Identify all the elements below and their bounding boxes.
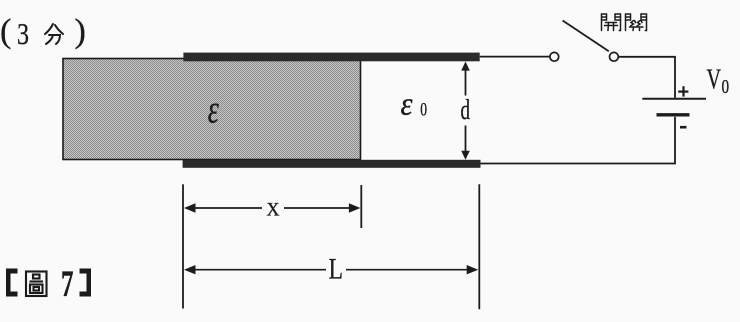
svg-text:X: X — [267, 200, 280, 221]
glyph 關 — [625, 14, 627, 31]
svg-text:V: V — [707, 65, 722, 96]
label - (battery negative) — [680, 126, 687, 129]
label (3分) score annotation — [0, 13, 86, 51]
svg-text:L: L — [329, 253, 344, 286]
svg-text:): ) — [75, 13, 86, 50]
svg-text:ε: ε — [401, 87, 413, 123]
dimension arrow x — [184, 203, 360, 212]
bracket 】 — [80, 269, 92, 297]
extension line right (right end of L) — [478, 184, 480, 309]
glyph 圖 — [26, 272, 47, 297]
svg-text:3: 3 — [17, 16, 29, 51]
svg-text:0: 0 — [420, 100, 427, 121]
dielectric slab epsilon — [63, 59, 361, 160]
switch right contact circle — [610, 52, 619, 61]
glyph 開 — [601, 14, 603, 31]
wire: battery negative to bottom plate — [481, 117, 676, 164]
battery V0: negative plate (short thick) — [657, 113, 690, 116]
extension line left (x/L datum) — [182, 184, 184, 308]
svg-text:ε: ε — [208, 86, 219, 131]
label 開關 (switch) — [602, 14, 647, 31]
capacitor bottom plate — [183, 160, 481, 168]
extension line middle (right end of x) — [360, 185, 362, 228]
bracket 【 — [6, 269, 18, 297]
dimension arrow L — [184, 265, 478, 274]
svg-text:0: 0 — [722, 76, 730, 98]
switch left contact circle — [550, 52, 559, 61]
svg-text:(: ( — [0, 13, 11, 50]
label 【圖 7】 figure caption — [6, 264, 91, 305]
capacitor top plate — [183, 53, 479, 62]
wire: top plate to switch left contact — [480, 56, 550, 58]
wire: switch to battery positive terminal — [618, 57, 675, 98]
svg-text:d: d — [461, 95, 471, 126]
dimension arrow d (plate separation) — [461, 62, 470, 160]
svg-text:7: 7 — [61, 264, 74, 305]
switch blade (open) — [563, 21, 609, 52]
battery V0: positive plate (long) — [642, 98, 706, 100]
label + (battery positive) — [678, 86, 688, 96]
label epsilon0 (air gap) — [401, 87, 428, 123]
label V0 — [707, 65, 730, 99]
